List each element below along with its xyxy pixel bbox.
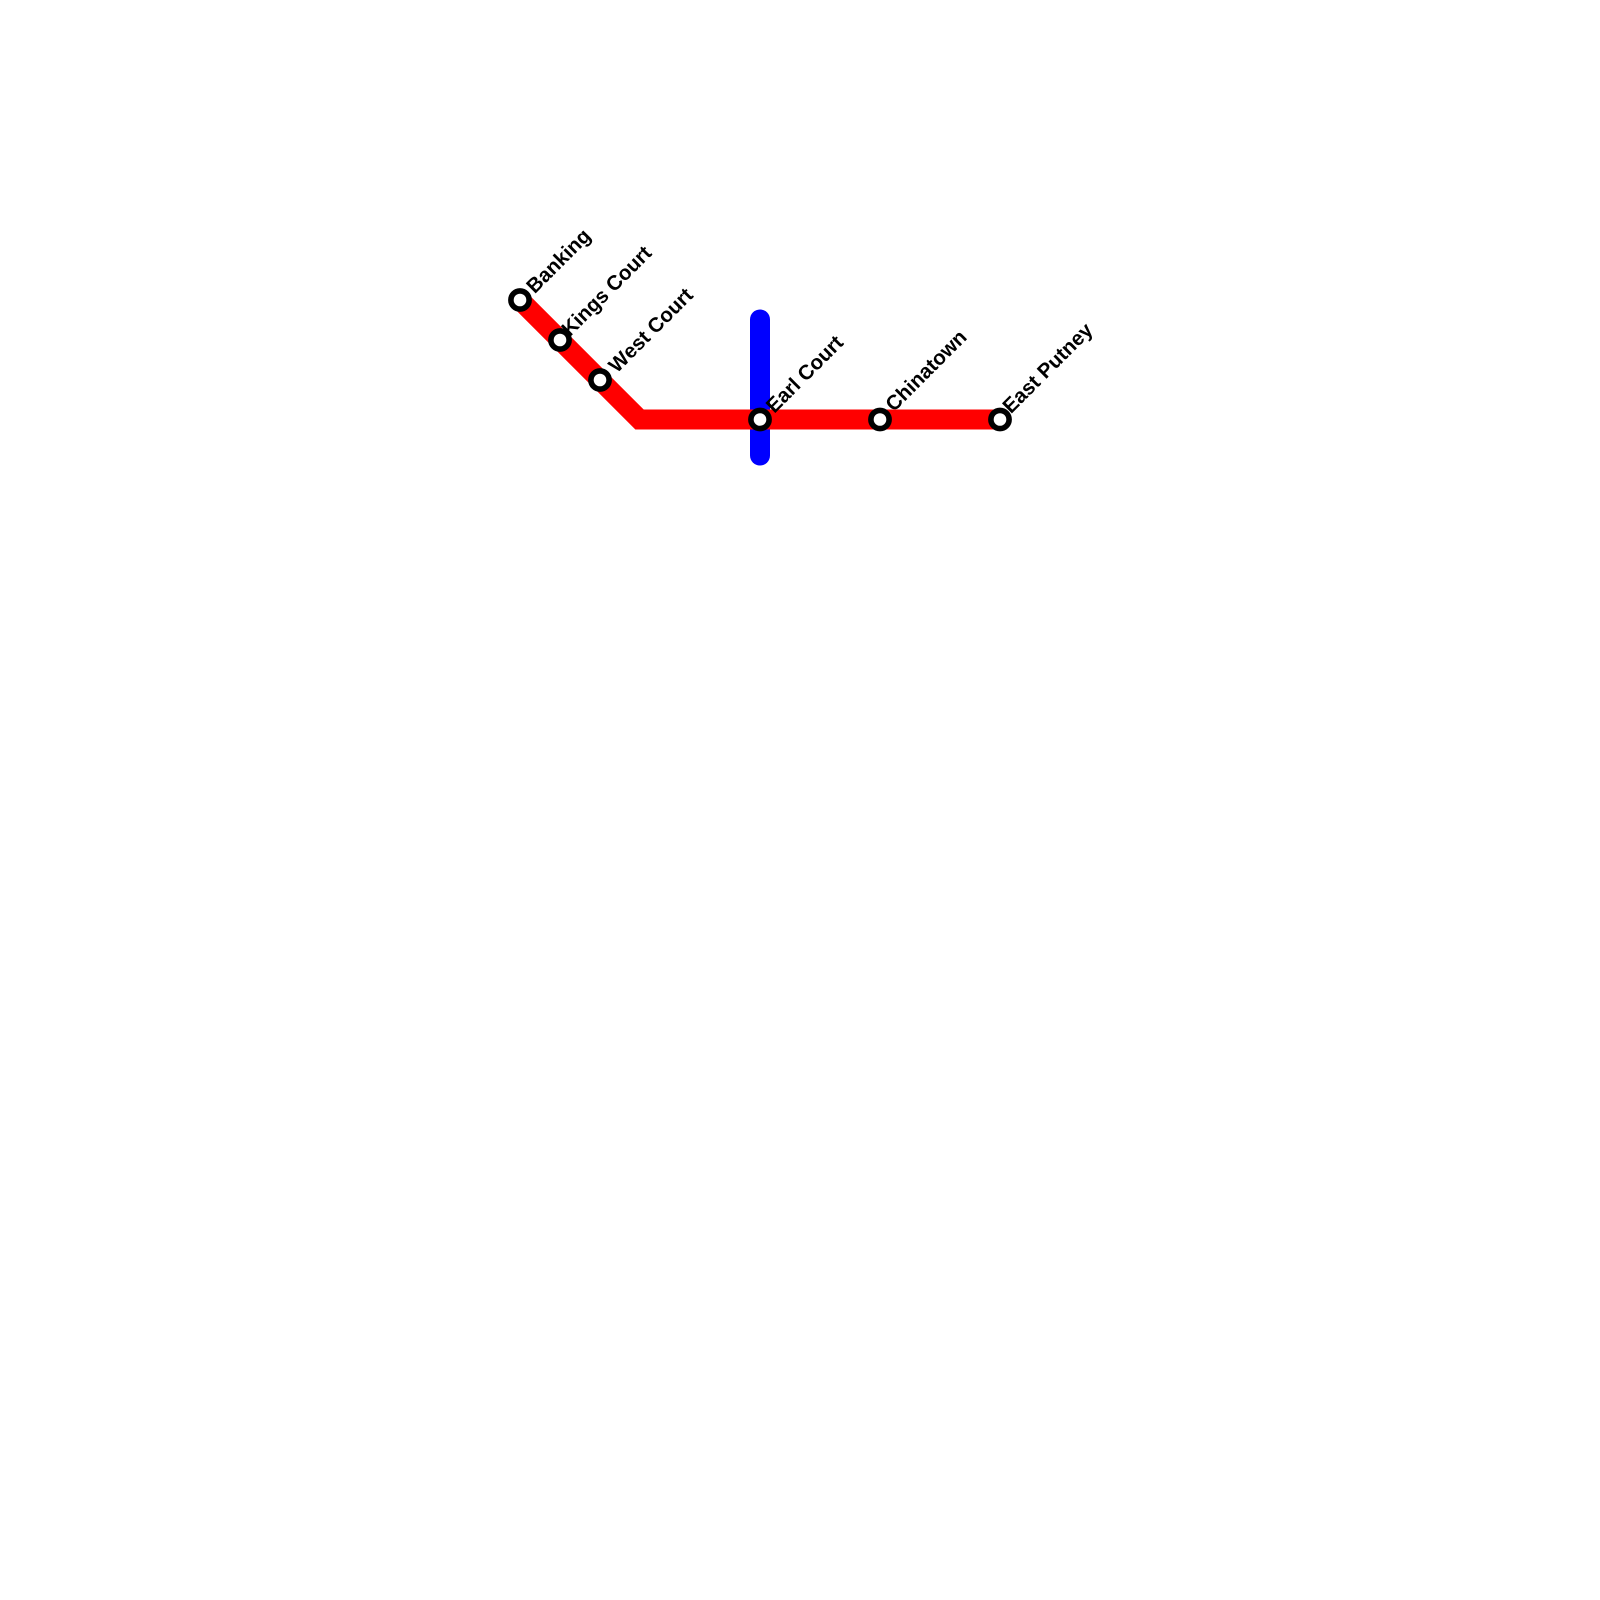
station Banking marker (511, 291, 529, 309)
station Earl Court marker (751, 410, 769, 428)
station East Putney marker (991, 410, 1009, 428)
label East Putney (1002, 321, 1097, 416)
label West Court (607, 286, 694, 373)
station West Court marker (591, 371, 609, 389)
blue metro line (vertical, through Earl Court) (750, 320, 770, 456)
station Chinatown marker (871, 410, 889, 428)
label Earl Court (765, 334, 845, 414)
label Banking (525, 228, 594, 297)
label Chinatown (884, 329, 967, 412)
label Kings Court (560, 244, 655, 339)
station Kings Court marker (551, 331, 569, 349)
red metro line (Banking to East Putney) (520, 300, 1000, 420)
